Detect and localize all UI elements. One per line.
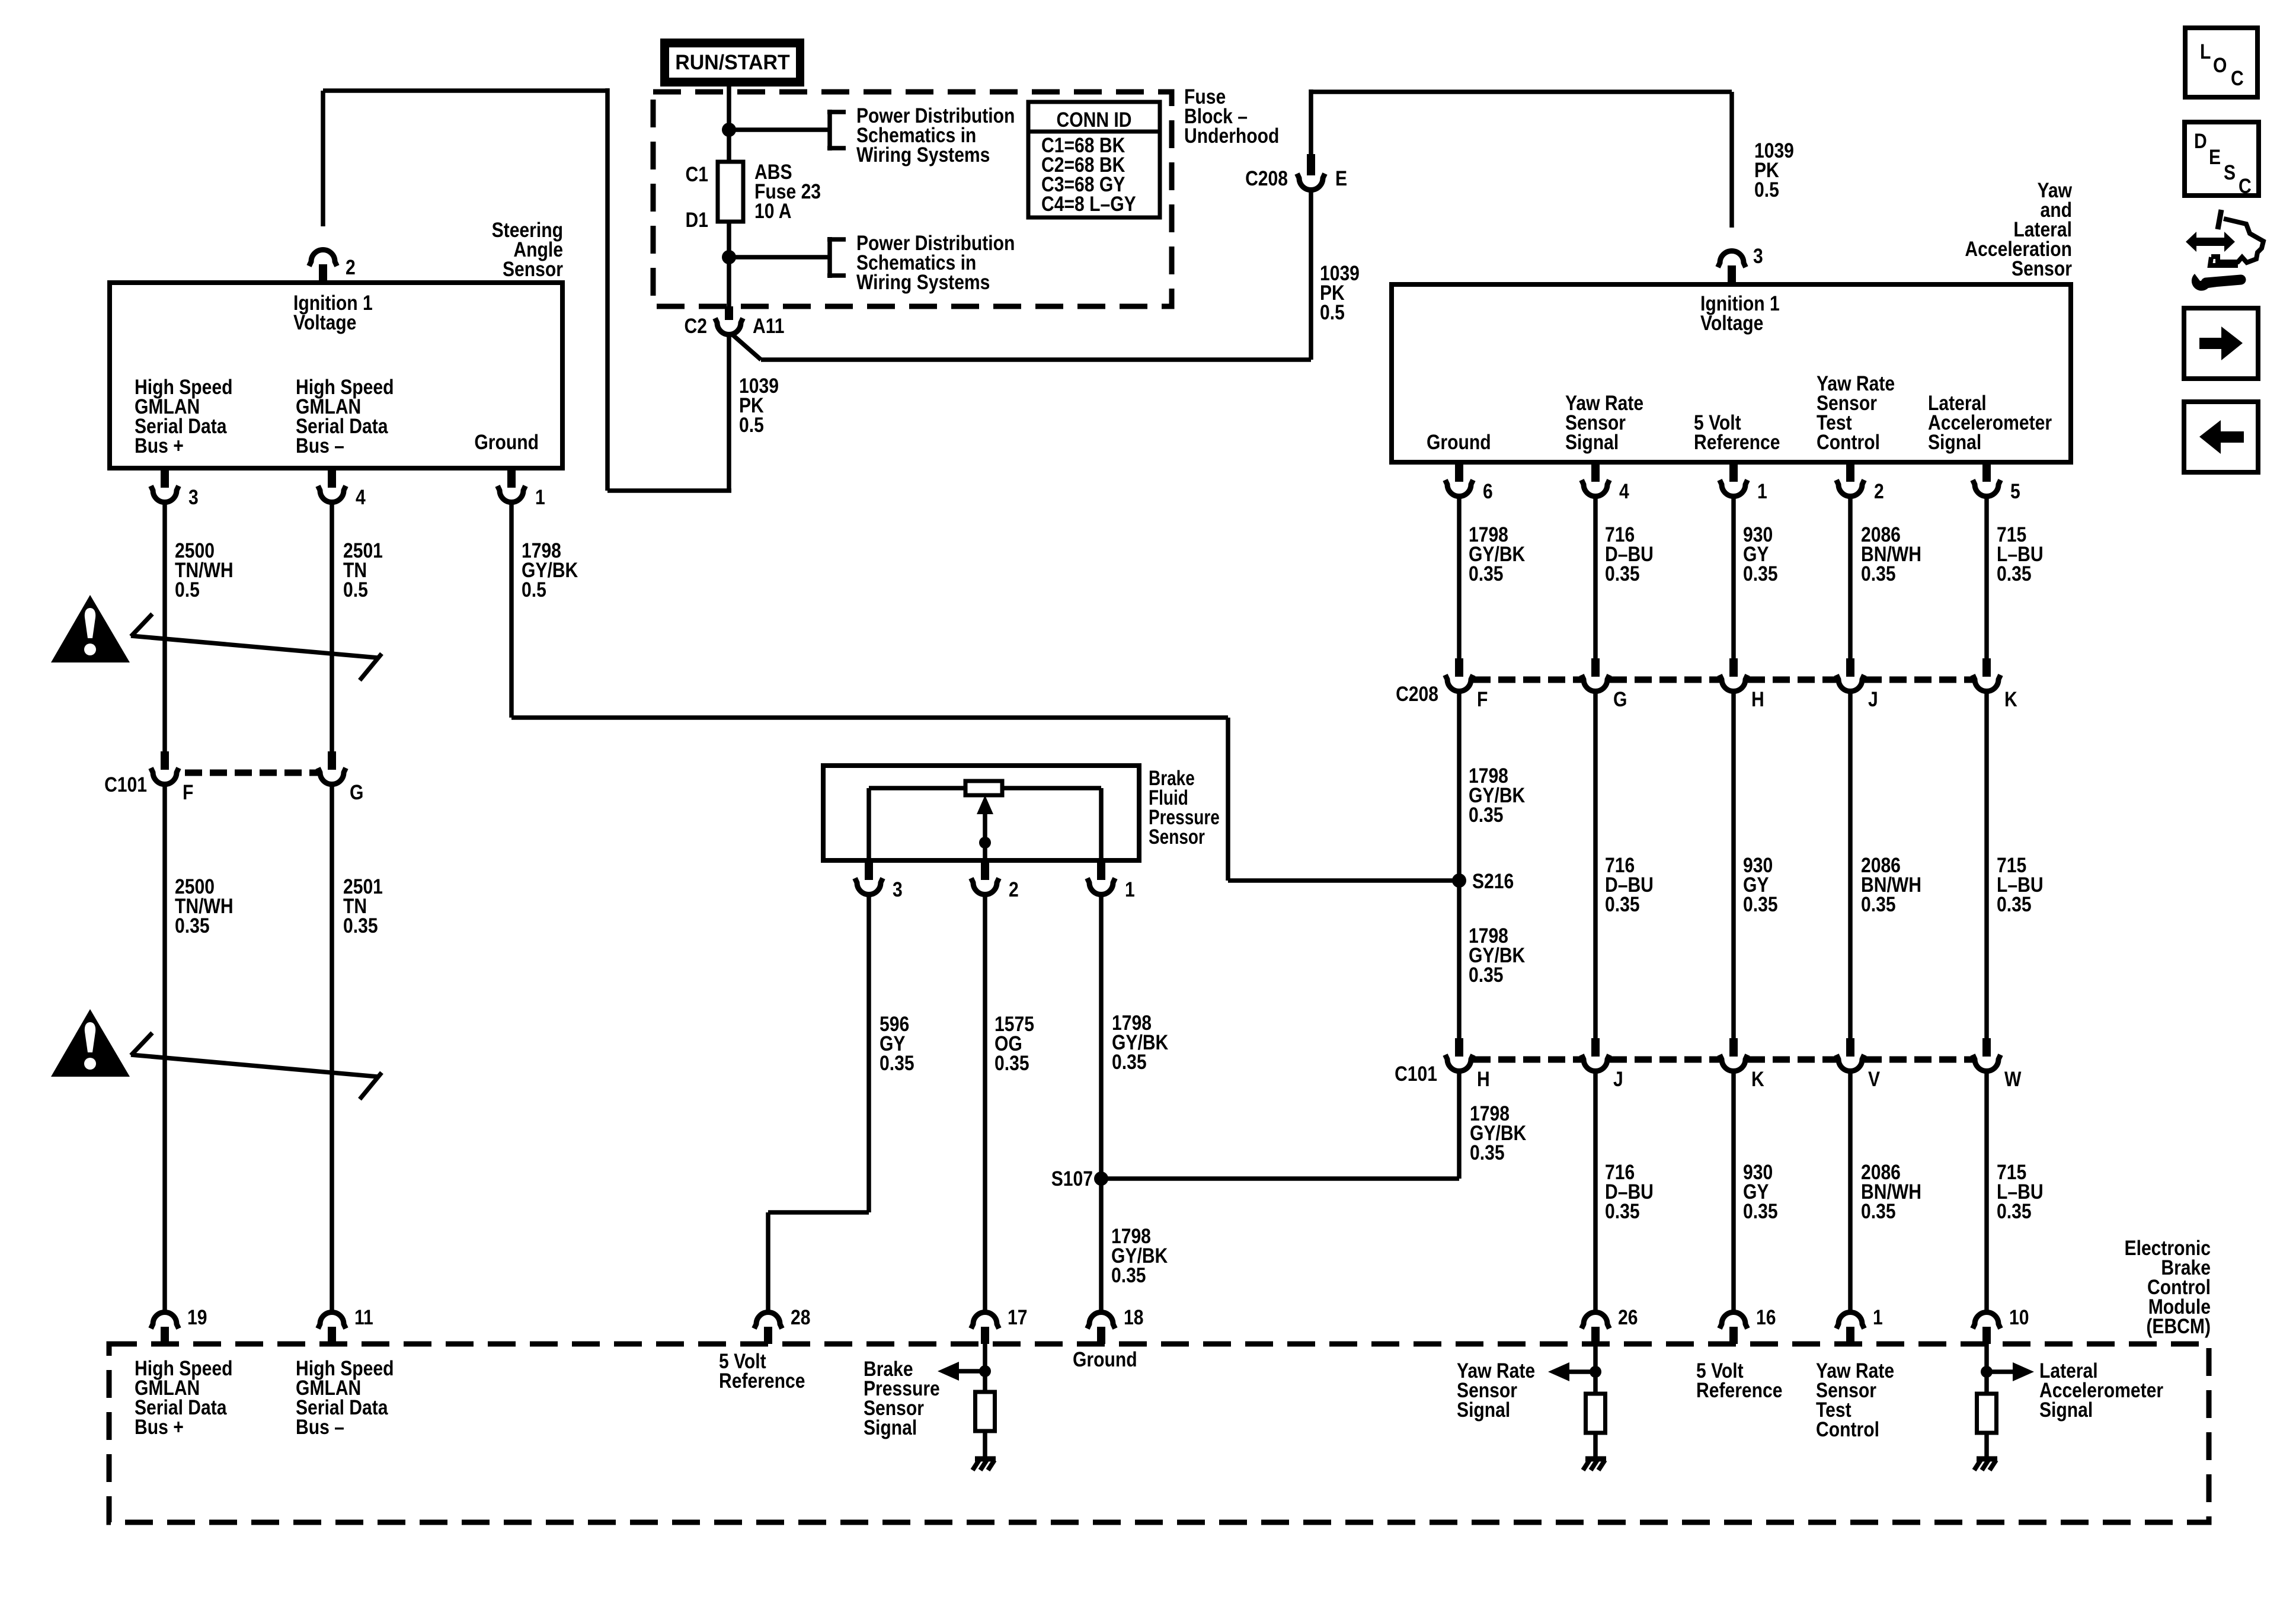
steering pin 4 (328, 468, 336, 488)
svg-text:CONN ID: CONN ID (1056, 108, 1131, 132)
wire A11 branch left (607, 488, 731, 493)
icon service vehicle wrench (2186, 232, 2235, 252)
bfps pin 3 (865, 860, 873, 880)
svg-text:5: 5 (2010, 479, 2020, 503)
icon box arrow right (2184, 308, 2258, 379)
steering angle sensor box (110, 283, 562, 468)
wire junction to branch symbol 2 (729, 255, 830, 260)
wire 2501 upper (330, 504, 334, 751)
wire resistor 17 to ground (983, 1431, 987, 1459)
svg-text:C101: C101 (104, 773, 147, 796)
svg-text:17: 17 (1008, 1305, 1027, 1329)
svg-text:J: J (1868, 687, 1878, 711)
fuse F23 (ABS Fuse 23 10A) (718, 162, 743, 222)
svg-text:Voltage: Voltage (1700, 311, 1763, 335)
wire pin 10 internal (1984, 1344, 1989, 1395)
twisted pair mark 1 (131, 614, 152, 636)
svg-text:0.35: 0.35 (1605, 562, 1640, 585)
svg-text:0.35: 0.35 (1605, 1199, 1640, 1223)
EBCM pin 11 (328, 1327, 336, 1344)
svg-text:3: 3 (188, 485, 199, 509)
svg-text:0.35: 0.35 (1743, 1199, 1778, 1223)
EBCM pin 17 (981, 1327, 989, 1344)
svg-text:1: 1 (535, 485, 545, 509)
svg-text:O: O (2213, 53, 2227, 77)
svg-text:Signal: Signal (2039, 1398, 2093, 1422)
svg-text:RUN/START: RUN/START (675, 52, 790, 75)
warning triangle 1 (51, 595, 130, 662)
wire 1798 with S216 (1457, 693, 1462, 1039)
wire down to yaw pin 3 (1729, 92, 1734, 228)
branch symbol power distribution 2 (827, 237, 832, 278)
svg-text:L: L (2200, 40, 2211, 63)
connector C208 K (1982, 658, 1991, 677)
svg-text:Bus +: Bus + (135, 434, 184, 457)
branch symbol power distribution 1 (827, 110, 832, 151)
svg-text:F: F (1477, 687, 1488, 711)
ground symbol EBCM 26 (1585, 1457, 1606, 1462)
arrow brake pressure sensor signal (958, 1369, 985, 1374)
svg-text:0.35: 0.35 (1997, 562, 2032, 585)
svg-text:Sensor: Sensor (1149, 825, 1205, 849)
svg-text:H: H (1751, 687, 1764, 711)
svg-text:2: 2 (1874, 479, 1884, 503)
svg-text:19: 19 (187, 1305, 207, 1329)
junction pin 10 signal (1981, 1366, 1993, 1378)
bfps wiper wire (983, 813, 987, 860)
svg-text:C: C (2231, 66, 2244, 90)
junction S107 (1094, 1172, 1108, 1186)
EBCM pin 10 (1982, 1327, 1991, 1344)
power feed box RUN/START (660, 39, 804, 87)
svg-text:Reference: Reference (1696, 1378, 1782, 1402)
svg-text:G: G (1613, 687, 1627, 711)
wire 2086 low (1848, 1073, 1853, 1310)
svg-text:0.35: 0.35 (1743, 562, 1778, 585)
connector C208 H (1729, 658, 1738, 677)
connector C208 J (1846, 658, 1854, 677)
EBCM pin 19 (161, 1327, 169, 1344)
bfps pin 1 (1097, 860, 1105, 880)
wire resistor 10 to ground (1984, 1433, 1989, 1459)
yaw pin 1 (1729, 462, 1738, 482)
junction pin 26 signal (1590, 1366, 1601, 1378)
steering pin 3 (161, 468, 169, 488)
svg-text:1: 1 (1873, 1305, 1883, 1329)
wire top to steering sensor (323, 88, 607, 93)
icon box LOC (2185, 28, 2257, 97)
wire 930 low (1731, 1073, 1736, 1310)
svg-text:Control: Control (1816, 1417, 1879, 1441)
svg-text:D1: D1 (686, 208, 708, 232)
svg-text:3: 3 (893, 878, 903, 901)
wire fuse D1 down (727, 222, 731, 257)
svg-text:E: E (2209, 145, 2221, 169)
wire up left branch (605, 88, 610, 491)
svg-text:S107: S107 (1051, 1167, 1093, 1190)
svg-text:S216: S216 (1472, 869, 1514, 893)
svg-text:Signal: Signal (1928, 430, 1981, 454)
wire RUN/START to fuse C1 (727, 87, 731, 162)
connector C101 H (1455, 1038, 1463, 1057)
wire resistor 26 to ground (1593, 1433, 1598, 1459)
wire 596 GY (866, 896, 871, 1212)
EBCM pin 26 (1591, 1327, 1600, 1344)
svg-text:0.5: 0.5 (343, 578, 368, 601)
bfps pin 2 (981, 860, 989, 880)
svg-text:W: W (2004, 1067, 2022, 1091)
twisted pair mark 2 (131, 1033, 152, 1055)
svg-text:Wiring Systems: Wiring Systems (856, 270, 990, 294)
steering pin 1 (507, 468, 516, 488)
wire A11 diagonal (732, 334, 761, 360)
svg-text:0.35: 0.35 (1861, 892, 1896, 916)
svg-text:0.5: 0.5 (1320, 300, 1345, 324)
EBCM pin 1 (1846, 1327, 1854, 1344)
svg-text:18: 18 (1124, 1305, 1143, 1329)
wire 930 mid (1731, 693, 1736, 1039)
wire C208 E up (1309, 89, 1313, 156)
svg-text:6: 6 (1483, 479, 1493, 503)
svg-text:G: G (350, 780, 363, 804)
bfps internal wire right (1002, 786, 1101, 790)
svg-text:Bus –: Bus – (296, 1415, 344, 1439)
svg-text:28: 28 (791, 1305, 810, 1329)
svg-text:0.35: 0.35 (994, 1051, 1029, 1075)
svg-text:C: C (2239, 174, 2252, 198)
EBCM pin 28 (764, 1327, 772, 1344)
svg-text:0.35: 0.35 (1112, 1050, 1147, 1074)
wire 715 low (1984, 1073, 1989, 1310)
connector row C208 dashed line (1473, 677, 1581, 683)
wire 2086 mid (1848, 693, 1853, 1039)
wire up to C208 E (1309, 191, 1313, 360)
connector C208 F (1455, 658, 1463, 677)
wire 1575 OG (983, 896, 987, 1310)
yaw pin 4 (1591, 462, 1600, 482)
wire 2500 upper (162, 504, 167, 751)
svg-text:Signal: Signal (1565, 430, 1619, 454)
wire top to yaw sensor (1311, 89, 1732, 94)
svg-text:0.35: 0.35 (1469, 562, 1504, 585)
svg-text:Reference: Reference (1694, 430, 1780, 454)
svg-text:1: 1 (1125, 878, 1135, 901)
ground symbol EBCM 17 (975, 1457, 996, 1462)
svg-text:2: 2 (346, 255, 356, 279)
CONN ID table (1028, 102, 1160, 217)
connector C101 G (328, 751, 336, 770)
svg-text:A11: A11 (753, 314, 785, 338)
arrow lateral accelerometer signal (1987, 1369, 2013, 1374)
svg-text:C101: C101 (1395, 1062, 1437, 1086)
svg-text:H: H (1477, 1067, 1490, 1091)
yaw pin 5 (1982, 462, 1991, 482)
svg-text:0.35: 0.35 (1469, 803, 1504, 827)
wire pin 17 internal (983, 1344, 987, 1394)
svg-text:0.35: 0.35 (880, 1051, 914, 1075)
svg-text:Signal: Signal (1457, 1398, 1510, 1422)
arrow yaw rate sensor signal (1569, 1369, 1595, 1374)
svg-text:0.35: 0.35 (1469, 963, 1504, 987)
svg-text:0.35: 0.35 (1861, 1199, 1896, 1223)
wire pin 26 internal (1593, 1344, 1598, 1395)
svg-text:0.35: 0.35 (343, 914, 378, 937)
svg-text:0.5: 0.5 (522, 578, 546, 601)
svg-text:3: 3 (1753, 244, 1763, 268)
wire ground down segment (1226, 718, 1230, 881)
connector C208 G (1591, 658, 1600, 677)
wire S107 horizontal (1101, 1176, 1459, 1181)
svg-text:0.35: 0.35 (1997, 1199, 2032, 1223)
svg-text:0.35: 0.35 (175, 914, 210, 937)
svg-text:K: K (1751, 1067, 1764, 1091)
wire ground horizontal (511, 715, 1228, 720)
svg-text:0.5: 0.5 (1754, 178, 1779, 201)
warning triangle 2 (51, 1009, 130, 1077)
wire 1798 ground steering (509, 504, 514, 718)
svg-text:K: K (2004, 687, 2017, 711)
svg-text:J: J (1613, 1067, 1623, 1091)
connector C101 W (1982, 1038, 1991, 1057)
svg-text:E: E (1335, 167, 1347, 190)
connector row C101 right dashed line (1473, 1057, 1581, 1063)
EBCM pin 18 (1097, 1327, 1105, 1344)
svg-text:11: 11 (354, 1305, 373, 1329)
svg-text:C4=8 L–GY: C4=8 L–GY (1041, 192, 1136, 216)
svg-text:2: 2 (1009, 878, 1019, 901)
yaw pin 3 (1728, 265, 1736, 284)
wire junction to branch symbol 1 (729, 127, 830, 132)
svg-text:4: 4 (356, 485, 366, 509)
svg-text:0.5: 0.5 (739, 413, 764, 437)
svg-text:0.35: 0.35 (1997, 892, 2032, 916)
svg-text:26: 26 (1618, 1305, 1638, 1329)
wire fuse output to C2 (727, 257, 731, 306)
resistor EBCM pin 10 pull (1977, 1394, 1997, 1433)
svg-text:Ground: Ground (1073, 1347, 1137, 1371)
wire 930 top (1731, 498, 1736, 660)
fuse block box (Fuse Block - Underhood) (653, 92, 1172, 306)
connector C2 A11 (725, 306, 733, 320)
junction on fuse feed (722, 123, 736, 137)
svg-text:0.35: 0.35 (1605, 892, 1640, 916)
yaw and lateral acceleration sensor box (1392, 284, 2071, 462)
bfps internal wire left (866, 788, 871, 860)
svg-text:10: 10 (2009, 1305, 2029, 1329)
wire 1798 yaw ground (1457, 498, 1462, 660)
connector C101 F (161, 751, 169, 770)
wire A11 to C208 E horizontal (761, 357, 1311, 362)
svg-text:10 A: 10 A (754, 199, 791, 223)
icon box DESC (2185, 122, 2259, 196)
wire 716 low (1593, 1073, 1598, 1310)
svg-text:Sensor: Sensor (2012, 257, 2072, 280)
svg-text:C208: C208 (1245, 167, 1288, 190)
bfps potentiometer resistor (965, 781, 1002, 795)
wire down to steering pin 2 (321, 91, 325, 226)
connector C208 E (1307, 154, 1315, 175)
wire 1798 bfps pin1 (1099, 896, 1104, 1179)
yaw pin 6 (1455, 462, 1463, 482)
resistor EBCM pin 26 pull (1586, 1394, 1606, 1433)
resistor EBCM pin 17 pull (976, 1392, 995, 1431)
svg-text:16: 16 (1756, 1305, 1776, 1329)
svg-text:S: S (2224, 161, 2236, 184)
wire 716 top (1593, 498, 1598, 660)
wire 716 mid (1593, 693, 1598, 1039)
svg-text:Voltage: Voltage (293, 311, 356, 334)
wire 715 mid (1984, 693, 1989, 1039)
brake fluid pressure sensor box (823, 766, 1139, 860)
wire 2500 lower (162, 786, 167, 1310)
connector row C101 left dashed line (185, 770, 318, 776)
wire 1798 below C101 H (1457, 1073, 1462, 1179)
svg-text:1: 1 (1757, 479, 1767, 503)
connector C101 J (1591, 1038, 1600, 1057)
wire 2086 top (1848, 498, 1853, 660)
svg-text:0.35: 0.35 (1861, 562, 1896, 585)
svg-text:0.35: 0.35 (1111, 1263, 1146, 1287)
svg-text:V: V (1868, 1067, 1880, 1091)
svg-text:Signal: Signal (864, 1416, 917, 1439)
svg-text:Bus –: Bus – (296, 434, 344, 457)
svg-text:Ground: Ground (474, 430, 539, 454)
junction S216 (1452, 873, 1466, 888)
wire 715 top (1984, 498, 1989, 660)
svg-text:0.5: 0.5 (175, 578, 200, 601)
svg-text:C208: C208 (1396, 682, 1438, 706)
icon box arrow left (2184, 402, 2258, 472)
svg-text:C2: C2 (685, 314, 707, 338)
svg-text:D: D (2194, 129, 2207, 153)
connector C101 K (1729, 1038, 1738, 1057)
electronic brake control module box (109, 1344, 2209, 1522)
wire 2501 lower (330, 786, 334, 1310)
svg-text:Bus +: Bus + (135, 1415, 184, 1439)
wire S107 to EBCM ground pin (1099, 1179, 1104, 1310)
junction pin 17 signal (979, 1365, 991, 1377)
wire A11 down (727, 336, 731, 491)
svg-text:C1: C1 (686, 162, 708, 186)
svg-text:Control: Control (1817, 430, 1880, 454)
wire ground to S216 (1228, 878, 1459, 883)
EBCM pin 16 (1729, 1327, 1738, 1344)
svg-text:Sensor: Sensor (503, 257, 563, 281)
ground symbol EBCM 10 (1977, 1457, 1997, 1462)
junction below fuse (722, 250, 736, 264)
svg-text:0.35: 0.35 (1470, 1141, 1505, 1164)
connector C101 V (1846, 1038, 1854, 1057)
svg-text:4: 4 (1619, 479, 1629, 503)
bfps wiper junction dot (979, 837, 991, 849)
svg-text:0.35: 0.35 (1743, 892, 1778, 916)
svg-text:F: F (183, 780, 193, 804)
svg-text:Underhood: Underhood (1184, 124, 1279, 148)
svg-text:Reference: Reference (719, 1369, 805, 1393)
svg-text:Ground: Ground (1427, 430, 1491, 454)
steering pin 2 (319, 264, 327, 283)
svg-text:Wiring Systems: Wiring Systems (856, 143, 990, 167)
yaw pin 2 (1846, 462, 1854, 482)
svg-text:(EBCM): (EBCM) (2146, 1314, 2211, 1338)
